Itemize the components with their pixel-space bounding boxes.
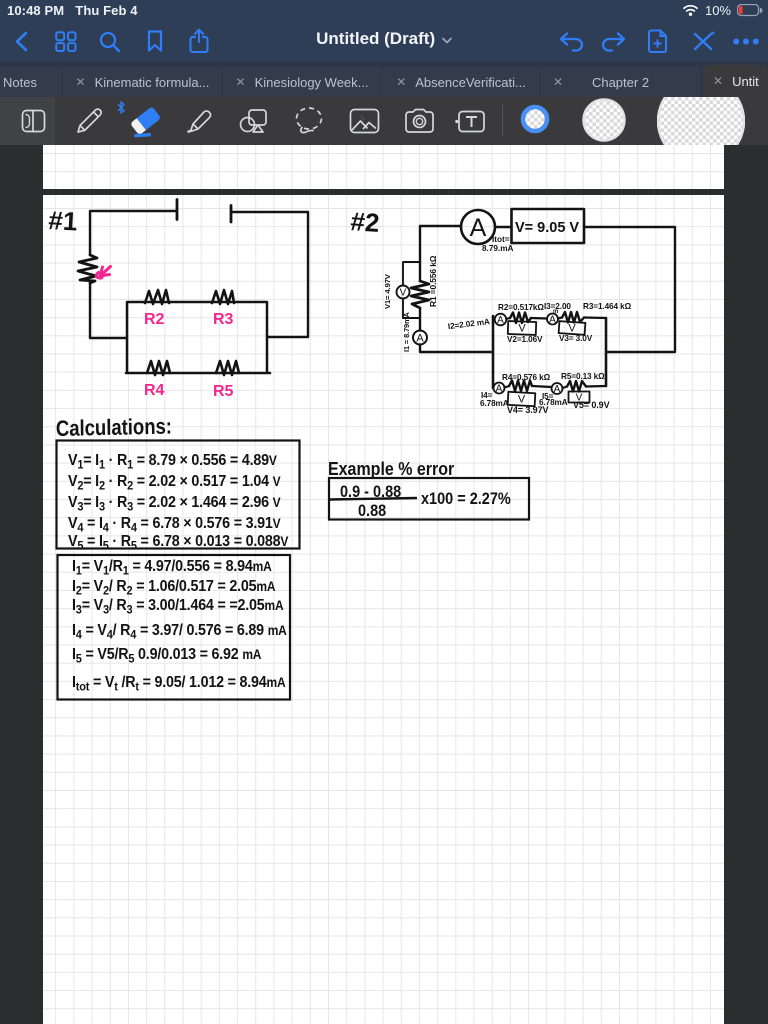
svg-text:x100 = 2.27%: x100 = 2.27%	[421, 490, 511, 508]
svg-text:I1 = 8.79mA: I1 = 8.79mA	[402, 311, 411, 352]
svg-text:m: m	[553, 309, 558, 315]
svg-text:I4 = V4/ R4 = 3.97/ 0.576 = 6.: I4 = V4/ R4 = 3.97/ 0.576 = 6.89 mA	[72, 621, 287, 641]
svg-text:V1= 4.97V: V1= 4.97V	[383, 273, 392, 309]
svg-text:R5=0.13 kΩ: R5=0.13 kΩ	[561, 372, 605, 381]
svg-text:A: A	[549, 315, 556, 326]
svg-text:V: V	[518, 394, 526, 406]
svg-text:R2=0.517kΩ: R2=0.517kΩ	[498, 303, 544, 312]
svg-text:I2= V2/ R2 = 1.06/0.517 = 2.0: I2= V2/ R2 = 1.06/0.517 = 2.05mA	[72, 577, 275, 597]
svg-text:Example % error: Example % error	[328, 458, 454, 479]
svg-text:V5= 0.9V: V5= 0.9V	[573, 400, 610, 410]
svg-text:V= 9.05 V: V= 9.05 V	[515, 220, 579, 236]
svg-text:R3: R3	[213, 311, 234, 328]
svg-text:Calculations:: Calculations:	[56, 415, 172, 441]
svg-text:R2: R2	[144, 311, 165, 328]
svg-text:0.9 - 0.88: 0.9 - 0.88	[340, 483, 402, 501]
svg-text:I5 = V5/R5 0.9/0.013 = 6.92 m: I5 = V5/R5 0.9/0.013 = 6.92 mA	[72, 645, 261, 665]
svg-text:V4= 3.97V: V4= 3.97V	[507, 405, 548, 415]
svg-text:A: A	[497, 315, 504, 326]
svg-text:I2=2.02 mA: I2=2.02 mA	[447, 317, 490, 331]
svg-text:V5 = I5 · R5 = 6.78 × 0.013 =: V5 = I5 · R5 = 6.78 × 0.013 = 0.088V	[68, 532, 289, 552]
svg-text:V2=1.06V: V2=1.06V	[507, 335, 543, 344]
svg-text:#1: #1	[48, 205, 78, 236]
svg-text:V3= 3.0V: V3= 3.0V	[559, 334, 593, 343]
svg-text:R1 =0.556 kΩ: R1 =0.556 kΩ	[428, 255, 438, 307]
svg-text:I1= V1/R1 = 4.97/0.556 = 8.94: I1= V1/R1 = 4.97/0.556 = 8.94mA	[72, 557, 272, 577]
svg-text:V: V	[568, 323, 576, 335]
svg-text:A: A	[416, 333, 424, 345]
svg-text:I3= V3/ R3 = 3.00/1.464 = =2.0: I3= V3/ R3 = 3.00/1.464 = =2.05mA	[72, 596, 283, 616]
svg-text:6.78mA: 6.78mA	[480, 399, 509, 408]
svg-text:V3= I3 · R3 = 2.02 × 1.464 = 2: V3= I3 · R3 = 2.02 × 1.464 = 2.96 V	[68, 493, 281, 513]
svg-text:R3=1.464 kΩ: R3=1.464 kΩ	[583, 302, 632, 311]
svg-text:#2: #2	[350, 206, 381, 238]
svg-text:A: A	[496, 384, 503, 395]
svg-text:V: V	[400, 288, 407, 299]
svg-text:V2= I2 · R2 = 2.02 × 0.517 = 1: V2= I2 · R2 = 2.02 × 0.517 = 1.04 V	[68, 472, 281, 492]
svg-text:V: V	[518, 323, 526, 335]
svg-text:A: A	[470, 214, 487, 242]
svg-text:R4: R4	[144, 382, 165, 399]
svg-text:Itot = Vt /Rt = 9.05/ 1.012 =: Itot = Vt /Rt = 9.05/ 1.012 = 8.94mA	[72, 673, 285, 693]
svg-text:R4=0.576 kΩ: R4=0.576 kΩ	[502, 373, 551, 382]
svg-text:Itot=: Itot=	[492, 235, 510, 244]
svg-text:0.88: 0.88	[358, 502, 387, 520]
svg-text:A: A	[554, 384, 561, 395]
svg-text:V1= I1 · R1 = 8.79 × 0.556 = 4: V1= I1 · R1 = 8.79 × 0.556 = 4.89V	[68, 451, 277, 471]
svg-text:8.79.mA: 8.79.mA	[482, 244, 513, 253]
svg-text:R5: R5	[213, 383, 234, 400]
